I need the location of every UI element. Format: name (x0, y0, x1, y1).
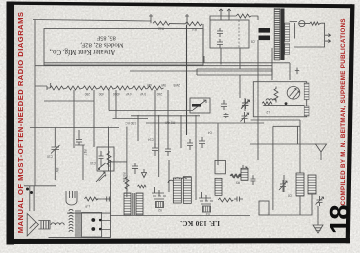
svg-text:R17: R17 (83, 150, 87, 156)
wire: midfield vertical x196 (195, 115, 197, 200)
wire: y144 right (250, 143, 316, 145)
wire: x258 upper lead (257, 40, 259, 63)
wire: vertical x169 (168, 160, 170, 192)
variable cap right2 (316, 196, 324, 206)
wire: bottom right links (269, 175, 318, 220)
wire: lamp loop (294, 23, 325, 47)
wire: y126 right (273, 125, 300, 127)
svg-text:R12: R12 (158, 27, 164, 31)
variable arrow (96, 172, 105, 182)
capacitor C a (217, 28, 223, 37)
resistor R16 top (236, 14, 251, 18)
resistor R lamp (305, 22, 321, 25)
gang shield box (273, 126, 298, 210)
capacitor bl (96, 197, 111, 202)
coil L2 (266, 99, 276, 101)
rectifier box (210, 20, 249, 48)
resistor R11 (185, 22, 202, 26)
speaker horn (27, 214, 38, 237)
small box right (259, 201, 269, 215)
svg-text:130 KC: 130 KC (125, 121, 136, 125)
wire: y127 long (30, 127, 119, 129)
variable cap C osc (241, 112, 249, 123)
oscillator box (253, 82, 306, 117)
node plus right (295, 68, 299, 75)
ant coil 2 (308, 175, 316, 194)
wire: vertical x240 (239, 48, 241, 69)
voice coil ribs (38, 221, 50, 230)
wire: y118 (113, 118, 149, 120)
wire: vertical x272 (271, 48, 273, 80)
IF transformer 1 secondary (183, 177, 191, 204)
svg-text:C16: C16 (47, 155, 53, 159)
svg-text:R11: R11 (191, 27, 197, 31)
svg-text:R3 4W: R3 4W (122, 173, 126, 183)
junction dots left (26, 188, 29, 191)
wire: center vertical thick (186, 25, 188, 135)
svg-text:85, 85F: 85, 85F (96, 35, 115, 42)
volume control R7 (190, 98, 210, 113)
choke transformer (124, 193, 143, 215)
ant coil 1 (296, 173, 304, 196)
coil vertical rf (241, 168, 248, 180)
capacitor C mid1 (221, 100, 227, 110)
svg-text:L2: L2 (266, 110, 270, 114)
wire: vertical x240b (239, 75, 241, 98)
detector box (97, 147, 114, 171)
resistor mid h (138, 185, 147, 188)
cap pair mid (152, 143, 171, 156)
node plus 2 (185, 14, 189, 25)
wire: y123 (146, 122, 264, 124)
wire: y120 right (251, 119, 300, 121)
resistor labels row2 (147, 83, 180, 87)
wire: left long vertical (34, 20, 36, 186)
svg-text:4W: 4W (55, 168, 59, 173)
capacitor C mid2 variable (241, 98, 249, 111)
speaker plug P (66, 191, 77, 205)
svg-text:400: 400 (98, 92, 104, 96)
capacitor small top (224, 113, 229, 118)
variable resistor mid (239, 165, 247, 180)
svg-text:COMPILED BY M. N. BEITMAN, SUP: COMPILED BY M. N. BEITMAN, SUPREME PUBLI… (340, 18, 347, 205)
electrolytic C8 block 1 (259, 28, 271, 33)
wire: midfield vertical x138 (137, 115, 139, 141)
svg-text:MANUAL OF MOST-OFTEN-NEEDED RA: MANUAL OF MOST-OFTEN-NEEDED RADIO DIAGRA… (16, 12, 25, 234)
osc resistor (274, 87, 278, 103)
cap C10 (99, 151, 104, 166)
wire: x74 vertical (73, 90, 75, 148)
svg-text:2W5: 2W5 (173, 83, 180, 87)
svg-text:R8 4W: R8 4W (165, 121, 175, 125)
wire: x204 tick (203, 56, 205, 63)
junction dot osc (285, 102, 288, 105)
resistor chain y88 (47, 86, 164, 90)
wire: vertical x221 (220, 48, 222, 65)
output terminal arrows (325, 34, 331, 43)
wire: vertical x155 (154, 90, 156, 148)
svg-text:4W: 4W (147, 83, 152, 87)
osc tube (287, 87, 300, 100)
svg-text:C4: C4 (208, 131, 212, 135)
IF coil 2 (215, 178, 222, 195)
wire: vertical x127 (126, 127, 128, 198)
wire: midfield vertical x110.7 (108, 127, 110, 171)
resistor labels row (84, 92, 162, 96)
wire: midfield vertical x181 (180, 115, 182, 148)
svg-text:5W: 5W (161, 83, 166, 87)
wire: top right feed (210, 16, 258, 20)
power transformer T1 (274, 9, 289, 61)
wire: transformer to lamp (290, 22, 297, 39)
svg-text:240: 240 (156, 92, 162, 96)
IF transformer 1 primary (173, 178, 181, 203)
svg-text:C6: C6 (288, 194, 292, 198)
tube V3 (199, 192, 213, 216)
resistor 50 (125, 175, 129, 191)
svg-text:C10: C10 (90, 161, 96, 165)
osc bottom resistor (262, 102, 272, 105)
field coil (51, 223, 64, 225)
wire: vertical x109 (108, 90, 110, 111)
switch contacts det (99, 163, 106, 181)
wire: y86 left (35, 86, 47, 90)
IF transformer curls (168, 178, 187, 183)
resistor rf (230, 174, 241, 178)
resistor R4 vertical (107, 151, 111, 167)
electrolytic C8 block 2 (259, 36, 271, 41)
capacitor C b (217, 39, 223, 48)
wire: midfield vertical x158.7 (158, 115, 160, 177)
rectifier shield dashed (238, 20, 240, 48)
output transformer (69, 209, 111, 237)
capacitor C2 (51, 128, 60, 181)
osc coil (304, 83, 309, 100)
title box (44, 29, 203, 66)
wires bottom left (24, 160, 111, 238)
pilot lamp (299, 21, 305, 27)
ground right (313, 220, 323, 233)
svg-text:5 W: 5 W (140, 92, 146, 96)
wire: y110.5 (109, 110, 193, 112)
resistor bottom (218, 198, 233, 202)
wire: y115.8 (131, 115, 200, 117)
ground mid (142, 169, 147, 178)
svg-text:C14: C14 (148, 138, 154, 142)
capacitor C7 (75, 130, 85, 180)
wire: x300 vertical (299, 120, 301, 173)
antenna right (316, 144, 327, 160)
title text (49, 35, 123, 56)
wire: main bus y63 (44, 62, 290, 64)
rectifier filament arrows (219, 9, 231, 16)
svg-text:R9: R9 (236, 181, 240, 185)
svg-text:4 W: 4 W (126, 92, 132, 96)
svg-text:18: 18 (324, 205, 355, 234)
wire: x290 drop (289, 63, 291, 80)
svg-text:250: 250 (84, 92, 90, 96)
variable cap osc upper (242, 99, 250, 109)
tube V2 (152, 187, 166, 212)
resistor R12 (153, 21, 170, 25)
svg-text:V2: V2 (158, 208, 162, 212)
small box mid (215, 160, 225, 173)
wire: bus y71 (130, 70, 272, 72)
wire: vertical x168 (167, 90, 169, 146)
svg-text:I.F. 130 KC.: I.F. 130 KC. (180, 219, 220, 227)
wire: main bus y66 (35, 65, 272, 67)
resistor mid zigzag (231, 174, 243, 178)
wire: vertical x94 (93, 90, 95, 147)
wire: top line with resistors (169, 24, 203, 29)
capacitor det out (132, 163, 138, 174)
wire: vertical x258 (257, 63, 259, 160)
svg-text:L.P.: L.P. (85, 204, 90, 208)
wire: y101 left (44, 100, 94, 102)
wire: x116 vertical (115, 90, 117, 118)
capacitor bottom (234, 197, 243, 202)
wire: y162 (109, 161, 127, 163)
wire: y75 segment (197, 69, 272, 75)
variable cap right1 (279, 180, 287, 192)
wire: outer top bus (33, 20, 151, 22)
wire: y215 bottom (110, 215, 250, 217)
svg-text:C8: C8 (251, 40, 255, 44)
wire: midfield vertical x218 (217, 123, 219, 165)
cap mid right (251, 175, 256, 185)
antenna node plus (149, 14, 153, 23)
cap pair mid2 (187, 137, 205, 150)
wire: vertical x203 (202, 28, 204, 63)
wire: osc bottom (263, 104, 304, 106)
resistor h bottom left (85, 197, 98, 201)
wire: tick (50, 83, 52, 88)
